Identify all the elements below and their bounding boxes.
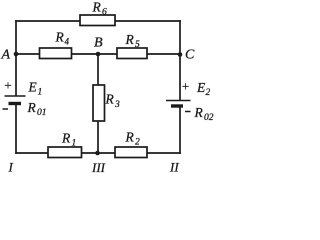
svg-text:I: I bbox=[8, 160, 14, 174]
svg-text:2: 2 bbox=[206, 88, 211, 98]
svg-text:02: 02 bbox=[204, 113, 214, 123]
svg-text:E: E bbox=[196, 80, 206, 95]
svg-text:R: R bbox=[125, 32, 135, 47]
wire middle rail A-B-C bbox=[16, 53, 180, 55]
svg-text:6: 6 bbox=[102, 8, 107, 18]
svg-text:R: R bbox=[125, 130, 135, 145]
resistor R2 bbox=[115, 147, 147, 158]
resistor R5 bbox=[117, 48, 147, 59]
wire right vertical upper (top rail to node C) bbox=[179, 21, 181, 54]
svg-text:R: R bbox=[27, 100, 37, 115]
svg-text:+: + bbox=[181, 79, 190, 94]
label E2 bbox=[196, 80, 211, 98]
label E1 bbox=[28, 80, 43, 98]
label R2 bbox=[125, 130, 141, 148]
node A junction dot bbox=[14, 52, 19, 57]
svg-text:R: R bbox=[105, 92, 115, 107]
node B junction dot bbox=[96, 52, 101, 57]
svg-text:R: R bbox=[55, 30, 65, 45]
svg-text:B: B bbox=[94, 36, 103, 51]
svg-text:5: 5 bbox=[135, 40, 140, 50]
E2 minus polarity mark bbox=[185, 111, 191, 113]
wire left vertical E1 minus plate to bottom rail bbox=[15, 105, 17, 154]
svg-text:III: III bbox=[91, 160, 106, 173]
svg-text:E: E bbox=[28, 80, 38, 95]
battery E2 bbox=[166, 101, 191, 107]
resistor R1 bbox=[48, 147, 82, 158]
node III junction dot bbox=[95, 151, 100, 156]
svg-text:4: 4 bbox=[65, 37, 70, 47]
svg-text:2: 2 bbox=[135, 138, 140, 148]
svg-text:3: 3 bbox=[114, 100, 120, 110]
label R01 internal resistance bbox=[27, 100, 47, 118]
wire R3 branch B to bottom junction III bbox=[97, 54, 99, 153]
resistor R6 bbox=[80, 15, 115, 26]
label R1 bbox=[61, 131, 76, 149]
svg-text:R: R bbox=[61, 131, 71, 146]
label R3 bbox=[105, 92, 121, 111]
battery E1 bbox=[5, 96, 26, 104]
wire right vertical C to E2 plus plate bbox=[179, 54, 181, 100]
node C junction dot bbox=[178, 52, 183, 57]
label R5 bbox=[125, 32, 141, 50]
label R02 internal resistance bbox=[194, 105, 214, 123]
wire left vertical upper (top rail to node A) bbox=[15, 21, 17, 54]
wire bottom rail through R1 and R2 bbox=[16, 152, 180, 154]
svg-text:R: R bbox=[92, 0, 102, 15]
svg-text:A: A bbox=[1, 48, 11, 63]
label R4 bbox=[55, 30, 70, 47]
label R6 bbox=[92, 0, 108, 18]
svg-text:R: R bbox=[194, 105, 204, 120]
E1 minus polarity mark bbox=[3, 108, 9, 110]
resistor R4 bbox=[40, 48, 72, 59]
svg-text:C: C bbox=[185, 48, 195, 63]
svg-text:1: 1 bbox=[38, 88, 43, 98]
svg-text:01: 01 bbox=[37, 108, 47, 118]
resistor R3 bbox=[93, 85, 105, 121]
wire top (A-loop top rail through R6) bbox=[16, 20, 180, 22]
wire left vertical A to E1 plus plate bbox=[15, 54, 17, 96]
svg-text:II: II bbox=[169, 160, 179, 174]
svg-text:1: 1 bbox=[72, 139, 77, 149]
svg-text:+: + bbox=[4, 78, 13, 93]
wire right vertical E2 minus plate to bottom rail bbox=[179, 107, 181, 153]
